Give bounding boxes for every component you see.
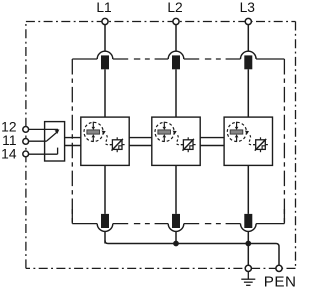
wire L2 from module to lower clamp — [175, 165, 177, 214]
disconnector element (grey block) of module 3 — [230, 130, 243, 134]
earthing terminal circle — [245, 265, 251, 271]
wire L1 from module to lower clamp — [104, 165, 106, 214]
svg-text:L1: L1 — [96, 0, 111, 15]
junction dot at L2 on PEN bus — [173, 241, 179, 247]
lower terminal clamp (black block) of L3 — [244, 214, 252, 228]
terminal circle 11 — [23, 139, 29, 145]
varistor of module 1 — [110, 137, 125, 152]
upper plug-in contact arc of L3 — [241, 51, 257, 59]
lower plug-in contact arc of L3 — [241, 224, 257, 232]
inner base part boundary: left dashed edge — [71, 59, 73, 224]
lower plug-in contact arc of L1 — [97, 224, 113, 232]
upper terminal clamp (black block) of L1 — [101, 55, 109, 69]
wire from terminal 11 into box (common) — [29, 140, 47, 142]
dashed trip linkage arrow of module 2 — [173, 131, 184, 145]
thermal disconnecting device (dashed circle) of module 2 — [155, 122, 174, 141]
varistor of module 2 — [181, 137, 196, 152]
remote signalling contact box — [45, 122, 65, 161]
outer enclosure boundary (dash-dot rectangle) — [26, 22, 296, 269]
dashed trip linkage arrow of module 1 — [102, 131, 113, 145]
wire L1 from terminal down to upper plug-in contact — [104, 25, 106, 52]
svg-text:14: 14 — [1, 147, 17, 162]
remote contact wiring: switch box to module 1 (lower) — [65, 145, 81, 147]
upper plug-in contact arc of L2 — [168, 51, 184, 59]
wire L1 from lower contact arc to PEN bus — [104, 231, 106, 243]
svg-text:L3: L3 — [240, 0, 256, 15]
phase terminal circle L3 — [245, 18, 251, 24]
wire L2 from upper clamp to module — [175, 69, 177, 117]
svg-text:L2: L2 — [167, 0, 182, 15]
dashed trip linkage arrow of module 3 — [245, 131, 256, 145]
upper terminal clamp (black block) of L3 — [244, 55, 252, 69]
lower plug-in contact arc of L2 — [168, 224, 184, 232]
terminal circle 14 — [23, 151, 29, 157]
upper terminal clamp (black block) of L2 — [172, 55, 180, 69]
protection module 1 box — [81, 117, 129, 165]
disconnector element (grey block) of module 2 — [158, 130, 171, 134]
wire from L3 junction down to earthing terminal — [247, 244, 249, 266]
lower terminal clamp (black block) of L1 — [101, 214, 109, 228]
PEN bus wire from L1 column to PEN drop — [105, 241, 279, 266]
wire L3 from upper clamp to module — [247, 69, 249, 117]
upper spring arrow of module 2 — [163, 122, 167, 130]
wire L3 from terminal down to upper plug-in contact — [247, 25, 249, 52]
svg-text:PEN: PEN — [264, 274, 297, 291]
phase terminal circle L1 — [102, 18, 108, 24]
upper plug-in contact arc of L1 — [97, 51, 113, 59]
PEN terminal circle — [276, 265, 282, 271]
upper spring arrow of module 3 — [235, 122, 239, 130]
inner base part boundary: bottom dashed edge — [72, 223, 97, 225]
inter-module wire 2-3 (lower) — [200, 145, 224, 147]
wire L3 from module to lower clamp — [247, 165, 249, 214]
protection module 3 box — [224, 117, 272, 165]
lower spring arrow of module 3 — [235, 134, 239, 142]
inner boundary solid runs into bottom corners — [71, 209, 73, 224]
ground symbol — [241, 272, 255, 286]
inter-module wire 2-3 (upper) — [200, 137, 224, 139]
wire L3 from lower contact arc to PEN bus — [247, 231, 249, 243]
wire L1 from upper clamp to module — [104, 69, 106, 117]
phase terminal circle L2 — [173, 18, 179, 24]
lower spring arrow of module 2 — [163, 134, 167, 142]
thermal disconnecting device (dashed circle) of module 3 — [227, 122, 246, 141]
inner base part boundary: top dashed edge — [72, 58, 97, 60]
thermal disconnecting device (dashed circle) of module 1 — [84, 122, 103, 141]
lower terminal clamp (black block) of L2 — [172, 214, 180, 228]
junction dot at L3 on PEN bus — [245, 241, 251, 247]
lower spring arrow of module 1 — [92, 134, 96, 142]
inter-module wire 1-2 (lower) — [129, 145, 152, 147]
remote contact wiring: switch box to module 1 (upper) — [65, 137, 81, 139]
terminal circle 12 — [23, 126, 29, 132]
upper spring arrow of module 1 — [92, 122, 96, 130]
wire from terminal 12 into box (NC contact) — [29, 128, 58, 130]
disconnector element (grey block) of module 1 — [87, 130, 100, 134]
wire L2 from terminal down to upper plug-in contact — [175, 25, 177, 52]
changeover switch arm with arrow tip — [47, 129, 60, 141]
NO fixed contact hook — [57, 148, 59, 155]
wire L2 from lower contact arc to PEN bus — [175, 231, 177, 243]
inner base part boundary: right dashed edge — [283, 59, 285, 224]
inter-module wire 1-2 (upper) — [129, 137, 152, 139]
wire from terminal 14 into box (NO contact) — [29, 153, 58, 155]
varistor of module 3 — [253, 137, 268, 152]
protection module 2 box — [152, 117, 200, 165]
